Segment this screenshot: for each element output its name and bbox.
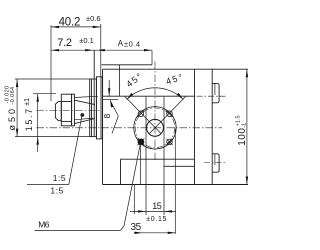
svg-text:7.2: 7.2 <box>57 37 72 49</box>
svg-text:±0.1: ±0.1 <box>79 36 94 45</box>
svg-text:8: 8 <box>102 113 112 118</box>
svg-text:±0.15: ±0.15 <box>146 216 167 223</box>
svg-text:15: 15 <box>152 201 162 211</box>
svg-text:1:5: 1:5 <box>50 186 63 196</box>
svg-text:15.7: 15.7 <box>24 107 34 131</box>
svg-text:±1: ±1 <box>24 98 31 106</box>
svg-text:40.2: 40.2 <box>59 17 81 29</box>
svg-text:A: A <box>118 39 124 48</box>
svg-text:100: 100 <box>237 128 248 146</box>
svg-text:±0.6: ±0.6 <box>86 14 101 23</box>
svg-text:M6: M6 <box>38 220 50 230</box>
svg-text:±0.4: ±0.4 <box>124 40 141 49</box>
svg-text:-0.064: -0.064 <box>10 87 16 105</box>
svg-text:35: 35 <box>131 222 142 233</box>
svg-text:1:5: 1:5 <box>53 173 66 183</box>
svg-text:-1: -1 <box>242 123 248 128</box>
svg-text:ø50: ø50 <box>7 106 17 131</box>
